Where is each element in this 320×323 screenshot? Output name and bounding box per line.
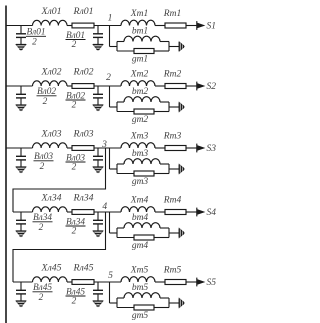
svg-text:bm3: bm3 [132,149,149,159]
capacitor Вл03 98,148 [93,148,103,167]
svg-text:gm3: gm3 [132,177,149,187]
resistor Rл01 [72,6,94,28]
inductor Хл03 [33,129,68,149]
svg-text:Rл45: Rл45 [72,263,93,274]
inductor Хл34 [33,193,68,213]
svg-text:1: 1 [108,14,113,24]
svg-text:bm4: bm4 [132,213,149,223]
inductor Xm1 [121,9,155,26]
inductor Xm3 [121,132,155,149]
resistor Rл34 [72,193,94,215]
resistor gm4 [117,235,169,251]
wire junction drop [110,212,118,233]
wire junction drop [110,148,118,169]
ground (branch) [179,298,184,307]
label Вл34/2 left [33,213,53,233]
svg-text:gm2: gm2 [132,115,149,125]
wire section 02 left [6,85,33,87]
wire loop right edge [169,164,179,174]
wire loop left edge [116,164,118,174]
inductor Хл02 [33,67,68,87]
wire [186,281,202,283]
svg-text:Rm5: Rm5 [163,266,182,276]
capacitor Вл02 21,86 [16,86,26,105]
svg-text:Rл02: Rл02 [72,67,93,78]
ground [93,231,103,237]
wire loop left edge [116,298,118,308]
wire [155,281,165,283]
inductor Хл01 [33,6,68,26]
wire loop left edge [116,42,118,52]
svg-text:S1: S1 [207,22,217,32]
wire [94,25,121,27]
svg-text:Rл01: Rл01 [72,6,93,17]
wire [94,85,121,87]
svg-text:gm4: gm4 [132,241,149,251]
wire [67,25,72,27]
inductor bm2 [117,87,169,102]
ground [16,45,26,51]
svg-text:2: 2 [39,223,44,233]
svg-text:2: 2 [39,293,44,303]
inductor Xm2 [121,70,155,87]
wire [155,85,165,87]
svg-text:gm5: gm5 [132,311,149,321]
wire loop left edge [116,228,118,238]
svg-text:bm2: bm2 [132,87,149,97]
wire loop left edge [116,102,118,112]
svg-text:5: 5 [108,271,113,281]
resistor gm2 [117,109,169,125]
capacitor Вл34 98,212 [93,212,103,231]
svg-text:bm5: bm5 [132,283,149,293]
output arrow S4 [197,208,217,218]
capacitor Вл02 98,86 [93,86,103,105]
svg-text:Xm1: Xm1 [130,9,148,19]
resistor gm5 [117,305,169,321]
ground [16,167,26,173]
wire [155,211,165,213]
output arrow S1 [197,21,216,31]
ground (branch) [179,228,184,237]
svg-text:Rm2: Rm2 [163,70,182,80]
svg-text:2: 2 [32,37,37,47]
label Вл01/2 right [66,31,86,50]
label Вл03/2 right [66,153,86,172]
label Вл34/2 right [66,217,86,236]
ground [16,231,26,237]
ground (branch) [179,42,184,51]
wire section 45 left [13,281,33,283]
output arrow S3 [197,144,217,154]
wire [186,85,202,87]
node 1 [108,14,113,24]
ground [93,105,103,111]
svg-text:Xm4: Xm4 [130,196,149,206]
svg-text:S4: S4 [207,208,217,218]
output arrow S2 [197,82,217,92]
capacitor Вл01 98,25.5 [93,26,103,45]
wire section 01 left [6,25,33,27]
wire loop right edge [169,228,179,238]
wire node 4 to section 45 [13,212,106,282]
svg-text:S3: S3 [207,144,217,154]
wire junction drop [110,86,118,107]
svg-text:Хл34: Хл34 [40,193,61,204]
label Вл02/2 left [37,87,57,107]
svg-text:2: 2 [72,100,77,110]
svg-text:2: 2 [72,40,77,50]
svg-text:4: 4 [102,202,107,212]
svg-text:S2: S2 [207,82,217,92]
ground [16,105,26,111]
capacitor Вл45 21,282 [16,282,26,301]
output arrow S5 [197,278,217,288]
svg-text:Rm1: Rm1 [163,9,181,19]
wire [186,25,202,27]
ground (branch) [179,102,184,111]
resistor gm3 [117,171,169,187]
svg-text:Xm2: Xm2 [130,70,149,80]
svg-text:Xm3: Xm3 [130,132,149,142]
svg-text:Хл03: Хл03 [40,129,61,140]
node 3 [101,140,107,150]
svg-text:Rл03: Rл03 [72,129,93,140]
node 5 [108,271,113,281]
wire loop right edge [169,42,179,52]
wire [67,281,72,283]
svg-text:2: 2 [72,226,77,236]
label Вл45/2 right [66,287,86,306]
svg-text:Хл45: Хл45 [40,263,61,274]
svg-text:gm1: gm1 [132,54,148,64]
wire [67,147,72,149]
capacitor Вл03 21,148 [16,148,26,167]
label Вл03/2 left [34,152,54,172]
svg-text:Rm3: Rm3 [163,132,182,142]
label Вл01/2 left [26,28,46,48]
node 4 [102,202,107,212]
wire [94,147,121,149]
input bus (left vertical wire) [5,6,7,323]
resistor Rл45 [72,263,94,285]
ground [93,167,103,173]
capacitor Вл34 21,212 [16,212,26,231]
ground [16,301,26,307]
resistor gm1 [117,49,169,65]
inductor Xm4 [121,196,155,213]
wire [94,281,121,283]
capacitor Вл45 98,282 [93,282,103,301]
svg-text:Rл34: Rл34 [72,193,93,204]
wire node 3 to section 34 [13,148,106,212]
svg-text:bm1: bm1 [132,26,148,36]
resistor Rm1 [163,9,186,28]
wire section 34 left [13,211,33,213]
resistor Rл02 [72,67,94,89]
svg-text:Хл02: Хл02 [40,67,61,78]
label Вл02/2 right [66,91,86,110]
wire loop right edge [169,298,179,308]
ground [93,45,103,51]
resistor Rm3 [163,132,186,151]
svg-text:S5: S5 [207,278,217,288]
ground (branch) [179,164,184,173]
inductor bm1 [117,26,169,41]
resistor Rm4 [163,196,186,215]
capacitor Вл01 21,25.5 [16,26,26,45]
wire [94,211,121,213]
label Вл45/2 left [33,283,53,303]
wire [67,211,72,213]
wire [186,147,202,149]
inductor bm5 [117,283,169,298]
wire junction drop [110,282,118,303]
inductor Хл45 [33,263,68,283]
wire junction drop [110,26,118,47]
svg-text:3: 3 [101,140,107,150]
wire [67,85,72,87]
resistor Rm5 [163,266,186,285]
svg-text:2: 2 [43,97,48,107]
inductor bm3 [117,149,169,164]
svg-text:2: 2 [40,162,45,172]
wire loop right edge [169,102,179,112]
svg-text:Xm5: Xm5 [130,266,149,276]
wire [155,147,165,149]
resistor Rл03 [72,129,94,151]
node 2 [106,73,111,83]
inductor bm4 [117,213,169,228]
inductor Xm5 [121,266,155,283]
wire [155,25,165,27]
svg-text:Хл01: Хл01 [40,6,61,17]
svg-text:2: 2 [72,162,77,172]
ground [93,301,103,307]
svg-text:2: 2 [106,73,111,83]
resistor Rm2 [163,70,186,89]
wire section 03 left [6,147,33,149]
wire [186,211,202,213]
svg-text:2: 2 [72,296,77,306]
svg-text:Rm4: Rm4 [163,196,182,206]
